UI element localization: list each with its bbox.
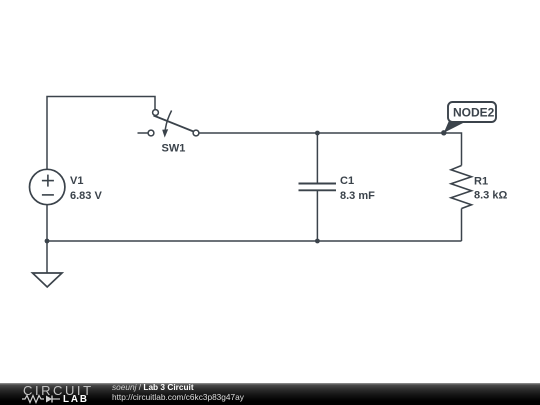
- voltage source V1: [30, 169, 103, 204]
- wire: V1 bottom to bottom bus: [46, 205, 48, 242]
- wire: switch left throw stub: [138, 132, 149, 134]
- wire: top-left from V1 top up and across to switch: [47, 97, 155, 170]
- junction dots: [45, 130, 447, 243]
- wire: bottom bus: [47, 240, 462, 242]
- svg-text:8.3 mF: 8.3 mF: [340, 190, 375, 202]
- ground: [33, 273, 63, 287]
- wire: resistor bottom lead: [461, 209, 463, 242]
- junction: cap top: [315, 131, 320, 136]
- top pin: [153, 110, 159, 116]
- svg-text:C1: C1: [340, 175, 354, 187]
- wire: capacitor bottom lead: [316, 191, 318, 242]
- switch SW1: [148, 110, 199, 155]
- junction: ground / V1 node: [45, 239, 50, 244]
- wire: main bus from switch to right corner, down to resistor: [199, 133, 462, 166]
- footer bar: [0, 383, 540, 405]
- left throw pin: [148, 130, 154, 136]
- junction: cap bottom: [315, 239, 320, 244]
- CircuitLab logo: [22, 383, 100, 405]
- blade: [154, 116, 194, 132]
- logo resistor+diode glyph: [22, 394, 66, 404]
- capacitor C1: [299, 175, 376, 202]
- footer text: [112, 383, 244, 402]
- right common pin: [193, 130, 199, 136]
- wire: ground lead: [46, 241, 48, 273]
- wire: capacitor top lead: [316, 133, 318, 183]
- actuation arrow: [165, 111, 171, 131]
- svg-text:6.83 V: 6.83 V: [70, 190, 102, 202]
- svg-text:R1: R1: [474, 176, 488, 188]
- resistor R1: [451, 166, 507, 209]
- svg-text:8.3 kΩ: 8.3 kΩ: [474, 190, 507, 202]
- junction: NODE2: [441, 130, 446, 135]
- node NODE2 flag: [444, 102, 496, 133]
- svg-text:SW1: SW1: [162, 143, 186, 155]
- svg-text:NODE2: NODE2: [453, 106, 495, 120]
- svg-text:V1: V1: [70, 175, 83, 187]
